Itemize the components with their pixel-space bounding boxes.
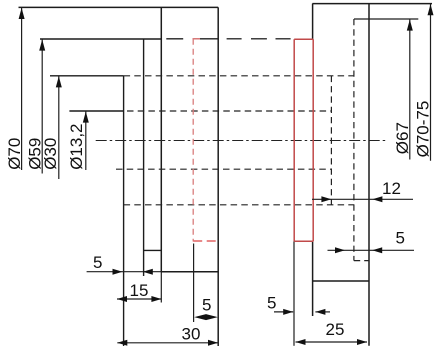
dim 25: right-pointing arrowhead bbox=[357, 339, 367, 345]
svg-text:5: 5 bbox=[93, 253, 102, 272]
extension line below flange left edge for 15-dim bbox=[160, 272, 162, 303]
svg-text:5: 5 bbox=[267, 294, 276, 313]
svg-text:30: 30 bbox=[182, 324, 201, 343]
dim O67: vertical line bbox=[409, 19, 411, 160]
dim 5 left: right-pointing arrowhead outside bbox=[113, 269, 123, 275]
dim 5 bottom-mid: left-pointing arrowhead of bowtie bbox=[194, 314, 206, 320]
svg-text:Ø67: Ø67 bbox=[393, 122, 412, 154]
dim 15: left-pointing arrowhead bbox=[117, 296, 127, 302]
phantom dash segment 5 at y=38.8 bbox=[276, 38, 291, 40]
hidden line: O13,2 lower dashed bbox=[116, 168, 331, 170]
dim 5 right-lower: right-pointing arrowhead bbox=[283, 309, 293, 315]
svg-text:Ø30: Ø30 bbox=[41, 138, 60, 170]
svg-text:15: 15 bbox=[130, 281, 149, 300]
dim O13,2: arrowhead up bbox=[83, 112, 89, 123]
phantom dash segment 4 at y=38.8 bbox=[251, 38, 267, 40]
svg-text:25: 25 bbox=[326, 320, 345, 339]
dim O70: arrowhead up bbox=[19, 8, 25, 19]
dim 12: right-pointing arrowhead at dashed line bbox=[321, 196, 331, 202]
dim 30: right-pointing arrowhead bbox=[208, 340, 218, 346]
red rectangle: bottom edge bbox=[294, 240, 313, 242]
red rectangle: right edge bbox=[312, 39, 314, 241]
hidden line: O67 bore vertical dashed bbox=[353, 19, 355, 261]
dim 30: line bbox=[117, 342, 218, 344]
right part outline: bottom edge bbox=[312, 280, 369, 282]
centerline axis dash-dot bbox=[96, 140, 387, 142]
dim O59: vertical line bbox=[41, 39, 43, 174]
dim 5 left: line through at y=271.7 bbox=[87, 271, 162, 273]
svg-text:Ø70: Ø70 bbox=[5, 138, 24, 170]
dim 5 bottom-mid: extension line at x=193.6 bbox=[193, 244, 195, 323]
dim O13,2: vertical line bbox=[85, 111, 87, 170]
dim O70-75: vertical line bbox=[430, 4, 432, 161]
dim 5 right-top: line bbox=[328, 249, 415, 251]
left part outline: O59 left vertical, extended below for 5-dim bbox=[143, 39, 145, 276]
dim O70: vertical line bbox=[21, 7, 23, 170]
dim 5 right-lower: left tail bbox=[274, 311, 293, 313]
extension line below red rect left edge down to 25-dim bbox=[293, 241, 295, 345]
dim O30: vertical line bbox=[58, 76, 60, 179]
left part outline: O30 top edge with extension to dim arrow bbox=[50, 75, 124, 77]
right part outline: top edge with extension to O70-75 dim bbox=[312, 3, 432, 5]
left part outline: left vertical of flange bbox=[160, 7, 162, 271]
svg-text:Ø13,2: Ø13,2 bbox=[67, 123, 86, 169]
dim 5 right-lower: left-pointing arrowhead bbox=[315, 309, 325, 315]
dim 5 left: left-pointing arrowhead outside bbox=[143, 269, 153, 275]
dim O30: arrowhead up bbox=[56, 76, 62, 87]
left part outline: O30 left vertical, extended down to 30-dim bbox=[123, 76, 125, 346]
phantom dash segment 3 at y=38.8 bbox=[227, 38, 242, 40]
svg-text:5: 5 bbox=[202, 296, 211, 315]
dim 5 right-top: left-pointing arrowhead bbox=[372, 247, 382, 253]
dim O67: arrowhead up bbox=[407, 20, 413, 31]
dim 5 bottom-mid: right-pointing arrowhead of bowtie bbox=[206, 314, 218, 320]
left part outline: O59 bottom step edge bbox=[144, 249, 162, 251]
dim 25: left-pointing arrowhead bbox=[296, 339, 306, 345]
left part outline: top edge of flange O70 with extension to dim bbox=[19, 6, 219, 8]
left part outline: O59 top edge with extension to dim arrow bbox=[40, 38, 161, 40]
dim 25: line bbox=[296, 341, 368, 343]
phantom dash segment 2 at y=38.8 bbox=[200, 38, 218, 40]
O13,2 hole top edge solid with extension to dim arrow bbox=[69, 110, 123, 112]
phantom dash segment 1 at y=38.8 bbox=[166, 38, 183, 40]
hidden line: O13,2 hole dashed continuation bbox=[127, 110, 331, 112]
right part outline: right vertical edge with extension down to 25-dim bbox=[368, 4, 370, 346]
dim 30: left-pointing arrowhead bbox=[117, 340, 127, 346]
hidden line: O67 bore bottom dashed corner bbox=[354, 260, 369, 262]
dim O70-75: arrowhead up bbox=[428, 4, 434, 15]
hidden line: O30 bore dashed top bbox=[124, 75, 354, 77]
dim 15: line bbox=[117, 298, 161, 300]
left part outline: bottom edge of flange bbox=[161, 271, 218, 273]
red rectangle: top edge bbox=[294, 38, 313, 40]
svg-text:12: 12 bbox=[382, 179, 401, 198]
red highlighted groove line: vertical dashed bbox=[192, 39, 194, 242]
red rectangle: left edge bbox=[293, 39, 295, 241]
dim O59: arrowhead up bbox=[39, 40, 45, 51]
dim 12: line bbox=[312, 198, 413, 200]
hidden line: O30 bore end vertical dashed in right part bbox=[330, 76, 332, 205]
dim 5 right-lower: right tail bbox=[315, 311, 330, 313]
dim 12: left-pointing arrowhead bbox=[372, 196, 382, 202]
left part outline: right vertical edge with extension down to 30-dim bbox=[217, 7, 219, 346]
right part outline: left vertical lower portion with extension for 5-dim bbox=[312, 241, 314, 316]
svg-text:Ø70-75: Ø70-75 bbox=[414, 101, 433, 158]
svg-text:5: 5 bbox=[396, 229, 405, 248]
dim 5 right-top: right-pointing arrowhead bbox=[335, 247, 345, 253]
right part outline: left vertical upper stub bbox=[312, 4, 314, 40]
hidden line: O30 lower dashed bbox=[124, 204, 354, 206]
dim 15: right-pointing arrowhead bbox=[151, 296, 161, 302]
red highlighted groove line: bottom dashed horizontal bbox=[193, 240, 217, 242]
phantom red corner segment at y=38.8 bbox=[193, 38, 201, 40]
O67 extension line bbox=[354, 18, 418, 20]
